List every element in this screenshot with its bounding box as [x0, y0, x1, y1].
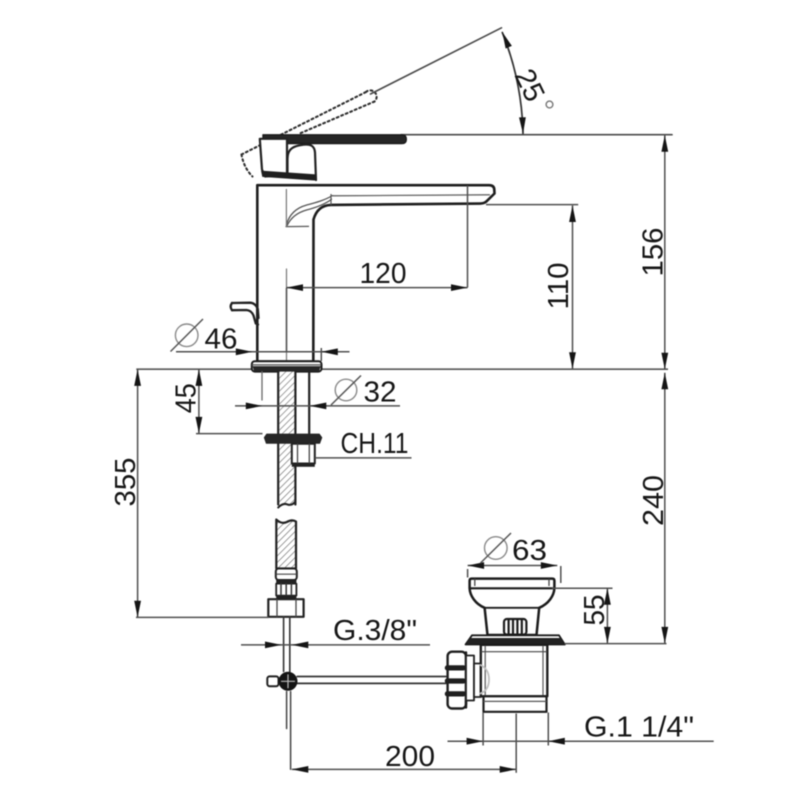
dim G3/8 arrow left	[265, 642, 282, 649]
dim 45 arrow bottom	[196, 417, 203, 434]
dim d46 arrow left	[236, 348, 253, 355]
dim G1-1/4 arrow left	[467, 738, 484, 745]
svg-text:156: 156	[638, 228, 670, 277]
degree symbol	[546, 101, 553, 108]
svg-text:120: 120	[360, 258, 407, 290]
dim 240 arrow bottom	[661, 627, 668, 644]
compression nut	[448, 652, 466, 709]
aerator curves	[287, 196, 333, 225]
dim 110 arrow bottom	[569, 352, 576, 369]
svg-text:110: 110	[543, 263, 575, 310]
dim 200 arrow right	[500, 766, 517, 773]
d46	[176, 351, 350, 353]
dim d32 arrow right	[310, 403, 327, 410]
svg-text:63: 63	[512, 535, 547, 567]
knob	[504, 619, 526, 635]
drain plate	[466, 635, 565, 644]
base flange	[252, 361, 322, 371]
dim G1-1/4 arrow right	[548, 738, 565, 745]
dim 120 arrow left	[287, 284, 304, 291]
svg-text:45: 45	[171, 383, 203, 413]
svg-text:CH.11: CH.11	[341, 428, 409, 460]
25 deg arc	[502, 33, 523, 134]
355	[137, 369, 139, 617]
110	[572, 206, 574, 369]
handle body	[260, 139, 287, 177]
threaded shank	[261, 372, 263, 400]
dark band under handle	[261, 171, 316, 181]
CH11 leader	[315, 457, 412, 459]
200	[292, 768, 516, 770]
dim G3/8 arrow right	[292, 642, 309, 649]
spout inner line	[333, 195, 490, 196]
svg-text:32: 32	[364, 377, 397, 409]
dashed handle rotated	[242, 90, 377, 176]
dim 55 arrow bottom	[604, 627, 611, 644]
dim 156 arrow top	[661, 135, 668, 152]
rod below T	[286, 692, 288, 729]
svg-text:55: 55	[579, 595, 611, 626]
body + spout outline	[257, 185, 494, 361]
svg-text:46: 46	[205, 324, 238, 356]
dim 120 arrow right	[451, 284, 468, 291]
tube to drain	[297, 676, 446, 678]
svg-text:240: 240	[638, 475, 670, 526]
handle lever bar	[263, 135, 406, 144]
DIMENSIONS	[136, 135, 714, 773]
dim 240 arrow top	[661, 373, 668, 390]
CH.11 hex	[292, 444, 315, 464]
drain body	[466, 656, 474, 701]
cap fitting	[276, 569, 297, 581]
counter line	[136, 368, 668, 370]
dim d46 arrow right	[321, 348, 338, 355]
svg-text:G.3/8": G.3/8"	[333, 615, 417, 647]
G 1 1/4	[448, 740, 714, 742]
120	[287, 287, 468, 289]
diameter symbols	[175, 324, 507, 559]
thin tube	[283, 617, 285, 672]
top horizontal line	[401, 134, 672, 136]
dim 355 arrow bottom	[134, 601, 141, 618]
drain top cap	[470, 579, 555, 635]
svg-text:200: 200	[385, 741, 435, 773]
svg-text:355: 355	[110, 458, 142, 507]
55	[552, 587, 613, 589]
d32	[235, 405, 400, 407]
156 + 240	[664, 135, 666, 369]
rod break, lower rod	[278, 502, 295, 508]
dim 156 arrow bottom	[661, 353, 668, 370]
faucet axis line	[285, 190, 287, 227]
dim 110 arrow top	[569, 206, 576, 223]
mounting nut	[264, 434, 323, 444]
dim 200 arrow left	[292, 766, 309, 773]
G3/8	[241, 644, 430, 646]
dim 355 arrow top	[134, 369, 141, 386]
apex line	[371, 28, 502, 94]
svg-text:G.1 1/4": G.1 1/4"	[584, 712, 694, 744]
dim 45 arrow top	[196, 369, 203, 386]
d63	[468, 565, 558, 567]
FAUCET BODY GROUP	[231, 28, 672, 769]
dim 55 arrow top	[604, 588, 611, 605]
T-joint	[267, 676, 278, 686]
dim d63 arrow left	[468, 562, 485, 569]
dim d32 arrow left	[246, 403, 263, 410]
neck	[288, 144, 317, 180]
pop-up lever	[231, 303, 259, 325]
dim d63 arrow right	[541, 562, 558, 569]
G3/8 hex nut	[268, 599, 303, 617]
45	[198, 369, 200, 433]
